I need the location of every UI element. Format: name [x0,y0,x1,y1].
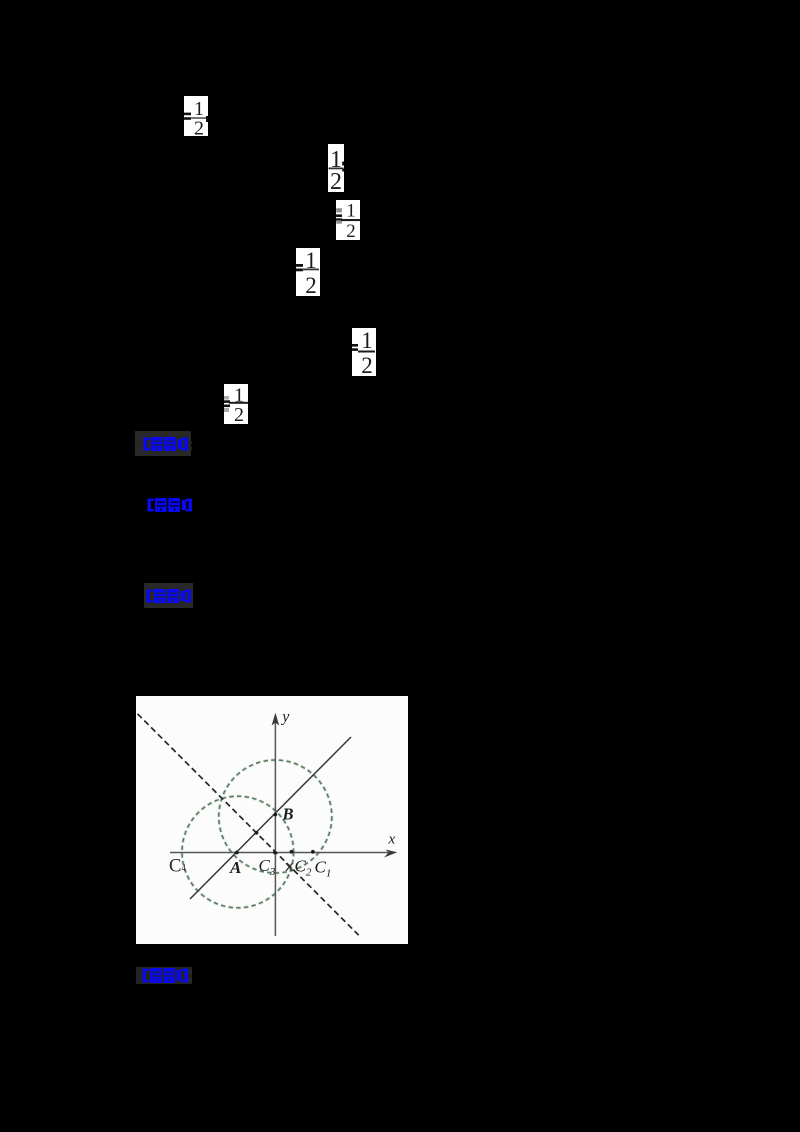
dot C1 [311,850,315,854]
svg-text:2: 2 [346,221,356,240]
fraction image =1/2 (box 1) [184,96,208,136]
dashed black line [138,714,359,935]
colon after label 1 [189,441,192,444]
dot C2 [290,850,294,854]
green dashed circle halo [182,760,332,908]
dot P intersection [255,831,259,835]
label 3 gray highlight [144,583,193,608]
svg-text:2: 2 [234,404,244,424]
svg-text:2: 2 [330,169,342,192]
svg-text:A: A [229,858,241,877]
fraction image =1/2 (box 6) [224,384,248,424]
x axis [170,852,392,854]
dot at origin C3 [273,851,277,855]
fraction image =1/2 (box 3) [336,200,360,240]
label 1 blue text [142,437,190,451]
dot B [273,813,277,817]
svg-text:2: 2 [305,273,317,296]
fraction image =1/2 (box 4) [296,248,320,296]
svg-text:1: 1 [346,201,356,222]
fraction image 1/2 (box 2) [328,144,344,192]
y axis [274,716,276,936]
dot A [235,851,239,855]
x cross mark [286,863,293,871]
label 4 blue text [141,968,190,983]
colon after label 4 [188,971,192,974]
label 2 blue text [146,498,194,512]
green dashed circle centered near B [219,760,332,873]
label 1 gray highlight [135,431,191,456]
svg-text:2: 2 [361,353,373,376]
label 4 gray highlight [136,967,192,984]
svg-text:2: 2 [194,118,204,137]
svg-text:y: y [280,709,290,726]
svg-text:B: B [282,805,294,824]
figure [136,696,408,944]
solid line [190,737,351,899]
label 3 blue text [145,589,193,603]
svg-text:x: x [388,832,396,848]
fraction image =1/2 (box 5) [352,328,376,376]
svg-text:1: 1 [361,328,373,353]
green dashed circle centered near A [182,796,294,908]
